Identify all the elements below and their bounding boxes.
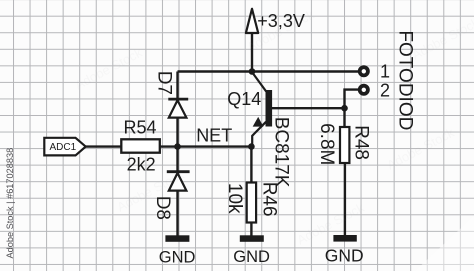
wire D8 to ground: [176, 190, 178, 236]
wire top rail: [178, 70, 359, 72]
wire NET R54 to emitter node: [160, 145, 252, 147]
svg-text:BC817K: BC817K: [271, 117, 292, 188]
svg-text:NET: NET: [196, 126, 232, 146]
connector pin 2: [360, 86, 368, 94]
wire node to R46: [250, 147, 252, 183]
svg-text:GND: GND: [233, 248, 270, 266]
wire D7 top: [176, 72, 178, 99]
svg-text:10k: 10k: [224, 183, 245, 214]
svg-text:GND: GND: [159, 248, 196, 266]
power symbol +3,3V arrow: [246, 9, 258, 33]
faint tiled watermarks: [72, 7, 474, 248]
port ADC1: [44, 138, 85, 156]
resistor R54: [121, 139, 160, 152]
svg-text:D8: D8: [152, 196, 173, 220]
wire ADC1 to R54: [85, 145, 122, 147]
wire R46 to ground: [250, 223, 252, 237]
wire R48 to ground: [344, 163, 346, 236]
wire D8 top: [176, 147, 178, 171]
wire node up to pin 2: [345, 90, 359, 109]
svg-text:R46: R46: [258, 182, 279, 217]
svg-text:1: 1: [380, 61, 390, 81]
wire D7 bottom: [176, 117, 178, 147]
svg-text:FOTODIOD: FOTODIOD: [394, 30, 415, 130]
ground (under D8): [165, 235, 189, 242]
transistor Q14: [252, 73, 272, 147]
connector pin 1: [360, 67, 368, 75]
svg-text:R54: R54: [124, 118, 157, 138]
svg-text:R48: R48: [351, 125, 372, 160]
svg-text:Q14: Q14: [227, 89, 261, 109]
ground (under R48): [333, 235, 356, 242]
wire base Q14 to node: [272, 107, 345, 109]
node C NET/emitter junction: [248, 143, 255, 150]
node B NET/D7 junction: [174, 143, 181, 150]
svg-text:6.8M: 6.8M: [316, 123, 337, 165]
wire node to R48: [343, 108, 345, 127]
diode D8: [167, 172, 190, 191]
svg-text:Adobe Stock | #617028838: Adobe Stock | #617028838: [5, 148, 15, 259]
svg-text:2k2: 2k2: [127, 154, 156, 174]
svg-text:D7: D7: [153, 71, 174, 95]
diode D7: [168, 99, 188, 118]
wire +3,3V riser: [251, 33, 253, 72]
watermark wedge bottom-right: [415, 216, 474, 271]
svg-text:GND: GND: [325, 246, 364, 266]
svg-text:ADC1: ADC1: [50, 142, 77, 153]
node A top rail junction: [249, 68, 256, 75]
svg-text:2: 2: [380, 81, 390, 101]
ground (under R46): [240, 235, 264, 242]
node D base/R48 junction: [341, 105, 348, 112]
resistor R46: [247, 183, 256, 223]
resistor R48: [340, 127, 349, 163]
